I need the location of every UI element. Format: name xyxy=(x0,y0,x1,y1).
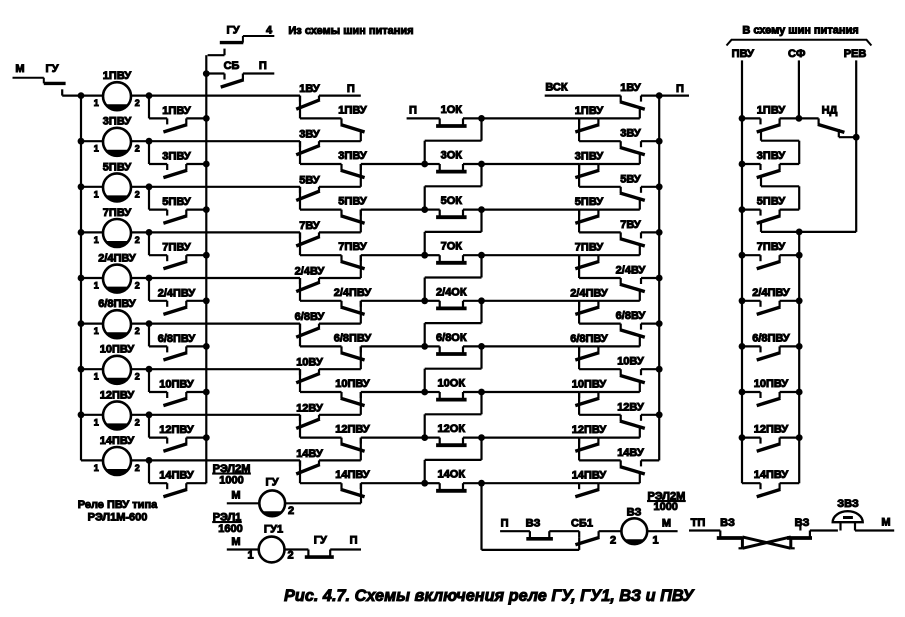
svg-text:1600: 1600 xyxy=(218,523,242,535)
svg-text:12ПВУ: 12ПВУ xyxy=(100,389,135,401)
svg-text:5ПВУ: 5ПВУ xyxy=(757,196,786,208)
svg-text:10ОК: 10ОК xyxy=(438,378,466,390)
svg-text:2: 2 xyxy=(135,417,140,427)
svg-text:1ПВУ: 1ПВУ xyxy=(162,105,191,117)
svg-text:1: 1 xyxy=(94,281,99,291)
svg-text:М: М xyxy=(231,490,240,502)
svg-text:3ВУ: 3ВУ xyxy=(299,129,320,141)
svg-text:СБ1: СБ1 xyxy=(571,518,593,530)
svg-text:ЗВЗ: ЗВЗ xyxy=(837,498,859,510)
svg-text:П: П xyxy=(347,83,355,95)
svg-text:1: 1 xyxy=(94,235,99,245)
svg-text:7ПВУ: 7ПВУ xyxy=(162,242,191,254)
svg-text:2: 2 xyxy=(135,144,140,154)
svg-text:РЭЛ1М-600: РЭЛ1М-600 xyxy=(88,512,148,524)
svg-text:СФ: СФ xyxy=(788,48,805,60)
svg-text:10ПВУ: 10ПВУ xyxy=(100,344,135,356)
svg-text:5ВУ: 5ВУ xyxy=(620,173,641,185)
svg-text:7ПВУ: 7ПВУ xyxy=(757,241,786,253)
svg-text:5ВУ: 5ВУ xyxy=(299,174,320,186)
svg-text:1ВУ: 1ВУ xyxy=(299,83,320,95)
svg-text:2/4ПВУ: 2/4ПВУ xyxy=(98,253,136,265)
svg-text:2: 2 xyxy=(135,463,140,473)
svg-text:В схему шин питания: В схему шин питания xyxy=(742,25,858,37)
svg-text:2: 2 xyxy=(135,235,140,245)
svg-text:1: 1 xyxy=(94,189,99,199)
svg-text:12ПВУ: 12ПВУ xyxy=(754,424,789,436)
svg-text:1ПВУ: 1ПВУ xyxy=(338,104,367,116)
svg-text:3ПВУ: 3ПВУ xyxy=(575,151,604,163)
svg-text:6/8ПВУ: 6/8ПВУ xyxy=(158,333,196,345)
svg-text:6/8ПВУ: 6/8ПВУ xyxy=(98,298,136,310)
svg-text:Реле ПВУ типа: Реле ПВУ типа xyxy=(78,499,158,511)
svg-text:РЕВ: РЕВ xyxy=(844,48,867,60)
svg-text:1ПВУ: 1ПВУ xyxy=(575,105,604,117)
svg-text:1: 1 xyxy=(94,326,99,336)
svg-text:2: 2 xyxy=(135,98,140,108)
svg-text:П: П xyxy=(409,105,417,117)
svg-text:7ВУ: 7ВУ xyxy=(299,220,320,232)
svg-text:1: 1 xyxy=(247,550,253,562)
svg-text:П: П xyxy=(259,60,267,72)
svg-text:П: П xyxy=(350,535,358,547)
svg-text:2: 2 xyxy=(610,535,616,547)
svg-text:ВЗ: ВЗ xyxy=(720,517,735,529)
svg-text:2/4ВУ: 2/4ВУ xyxy=(295,266,325,278)
svg-text:1: 1 xyxy=(652,535,658,547)
svg-text:ГУ: ГУ xyxy=(265,477,278,489)
svg-text:14ПВУ: 14ПВУ xyxy=(335,469,370,481)
svg-text:10ВУ: 10ВУ xyxy=(617,356,644,368)
svg-text:ВЗ: ВЗ xyxy=(627,507,642,519)
svg-text:3ПВУ: 3ПВУ xyxy=(103,116,132,128)
svg-text:6/8ВУ: 6/8ВУ xyxy=(616,310,646,322)
svg-text:6/8ВУ: 6/8ВУ xyxy=(295,311,325,323)
svg-text:5ПВУ: 5ПВУ xyxy=(162,196,191,208)
svg-text:2/4ОК: 2/4ОК xyxy=(436,286,467,298)
svg-text:ПВУ: ПВУ xyxy=(732,48,754,60)
svg-text:2: 2 xyxy=(135,281,140,291)
svg-text:1: 1 xyxy=(94,372,99,382)
svg-text:3ОК: 3ОК xyxy=(441,150,463,162)
svg-text:ГУ: ГУ xyxy=(226,25,239,37)
svg-text:2/4ПВУ: 2/4ПВУ xyxy=(570,287,608,299)
svg-text:5ОК: 5ОК xyxy=(441,195,463,207)
svg-text:М: М xyxy=(881,517,890,529)
svg-text:6/8ОК: 6/8ОК xyxy=(436,332,467,344)
svg-text:10ПВУ: 10ПВУ xyxy=(754,378,789,390)
svg-text:7ПВУ: 7ПВУ xyxy=(575,242,604,254)
svg-text:3ПВУ: 3ПВУ xyxy=(757,150,786,162)
svg-text:12ВУ: 12ВУ xyxy=(617,401,644,413)
svg-text:14ВУ: 14ВУ xyxy=(617,447,644,459)
svg-text:10ПВУ: 10ПВУ xyxy=(572,379,607,391)
svg-text:12ВУ: 12ВУ xyxy=(296,402,323,414)
svg-text:П: П xyxy=(501,518,509,530)
svg-text:14ПВУ: 14ПВУ xyxy=(572,470,607,482)
svg-text:4: 4 xyxy=(266,25,273,37)
svg-text:ГУ: ГУ xyxy=(45,63,58,75)
svg-text:3ПВУ: 3ПВУ xyxy=(338,150,367,162)
svg-text:М: М xyxy=(662,518,671,530)
svg-text:6/8ПВУ: 6/8ПВУ xyxy=(570,333,608,345)
svg-text:5ПВУ: 5ПВУ xyxy=(575,196,604,208)
svg-text:5ПВУ: 5ПВУ xyxy=(103,161,132,173)
svg-text:5ПВУ: 5ПВУ xyxy=(338,196,367,208)
svg-text:1: 1 xyxy=(94,463,99,473)
svg-text:12ПВУ: 12ПВУ xyxy=(335,424,370,436)
svg-text:2: 2 xyxy=(135,326,140,336)
svg-text:1ПВУ: 1ПВУ xyxy=(757,104,786,116)
svg-text:ТП: ТП xyxy=(691,517,706,529)
svg-text:7ПВУ: 7ПВУ xyxy=(103,207,132,219)
svg-text:1ПВУ: 1ПВУ xyxy=(103,70,132,82)
svg-text:10ВУ: 10ВУ xyxy=(296,357,323,369)
svg-text:1000: 1000 xyxy=(219,475,243,487)
svg-text:1: 1 xyxy=(94,417,99,427)
svg-text:2/4ПВУ: 2/4ПВУ xyxy=(334,287,372,299)
svg-text:1000: 1000 xyxy=(653,501,677,513)
svg-text:1: 1 xyxy=(94,144,99,154)
svg-text:РЭЛ1: РЭЛ1 xyxy=(213,512,242,524)
svg-text:ВЗ: ВЗ xyxy=(795,517,810,529)
svg-text:3ВУ: 3ВУ xyxy=(620,128,641,140)
svg-text:П: П xyxy=(676,83,684,95)
svg-text:6/8ПВУ: 6/8ПВУ xyxy=(334,332,372,344)
svg-text:2: 2 xyxy=(288,505,294,517)
svg-text:14ПВУ: 14ПВУ xyxy=(754,469,789,481)
svg-text:10ПВУ: 10ПВУ xyxy=(159,379,194,391)
svg-text:ВСК: ВСК xyxy=(545,82,567,94)
svg-text:7ВУ: 7ВУ xyxy=(620,219,641,231)
svg-text:Из схемы шин питания: Из схемы шин питания xyxy=(288,25,413,37)
svg-text:12ПВУ: 12ПВУ xyxy=(572,424,607,436)
svg-text:2/4ПВУ: 2/4ПВУ xyxy=(752,287,790,299)
svg-text:2: 2 xyxy=(287,550,293,562)
svg-text:2/4ПВУ: 2/4ПВУ xyxy=(158,287,196,299)
svg-text:1ОК: 1ОК xyxy=(441,104,463,116)
svg-text:14ОК: 14ОК xyxy=(438,469,466,481)
svg-text:3ПВУ: 3ПВУ xyxy=(162,151,191,163)
svg-text:ГУ1: ГУ1 xyxy=(264,524,283,536)
svg-text:2: 2 xyxy=(135,189,140,199)
svg-text:10ПВУ: 10ПВУ xyxy=(335,378,370,390)
svg-text:12ОК: 12ОК xyxy=(438,423,466,435)
svg-text:6/8ПВУ: 6/8ПВУ xyxy=(752,332,790,344)
svg-text:14ВУ: 14ВУ xyxy=(296,448,323,460)
svg-text:1: 1 xyxy=(94,98,99,108)
svg-text:НД: НД xyxy=(822,105,838,117)
svg-text:12ПВУ: 12ПВУ xyxy=(159,424,194,436)
svg-text:7ПВУ: 7ПВУ xyxy=(338,241,367,253)
svg-text:14ПВУ: 14ПВУ xyxy=(159,470,194,482)
svg-text:М: М xyxy=(15,63,24,75)
svg-text:7ОК: 7ОК xyxy=(441,241,463,253)
svg-text:М: М xyxy=(231,536,240,548)
svg-text:Рис. 4.7. Схемы включения реле: Рис. 4.7. Схемы включения реле ГУ, ГУ1, … xyxy=(284,587,696,605)
svg-text:2: 2 xyxy=(135,372,140,382)
svg-text:14ПВУ: 14ПВУ xyxy=(100,435,135,447)
svg-text:ГУ: ГУ xyxy=(314,535,327,547)
svg-text:2/4ВУ: 2/4ВУ xyxy=(616,265,646,277)
svg-text:1ВУ: 1ВУ xyxy=(620,82,641,94)
svg-text:РЭЛ2М: РЭЛ2М xyxy=(213,463,251,475)
svg-text:ВЗ: ВЗ xyxy=(526,518,541,530)
svg-text:СБ: СБ xyxy=(224,60,240,72)
